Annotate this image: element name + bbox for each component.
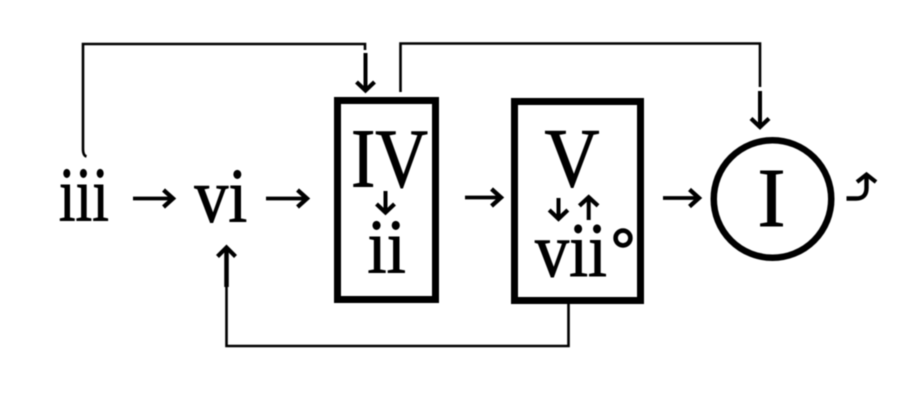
svg-text:I: I <box>758 152 786 245</box>
svg-text:vii: vii <box>535 207 607 293</box>
wire feedback iii to IV (top-left) <box>83 44 375 157</box>
svg-text:V: V <box>545 112 600 205</box>
arrow IV down to ii <box>377 191 395 213</box>
svg-text:vi: vi <box>194 153 247 239</box>
diminished degree circle on vii <box>616 231 631 246</box>
box IV/ii <box>338 101 436 300</box>
wire feedback V to vi (bottom) <box>218 248 569 347</box>
svg-text:IV: IV <box>351 113 428 206</box>
circle node I <box>714 140 832 258</box>
box V/vii <box>515 102 641 301</box>
arrow V down to vii <box>549 198 568 219</box>
arrow IV to V <box>465 189 501 206</box>
svg-text:iii: iii <box>59 152 109 238</box>
svg-text:ii: ii <box>367 204 406 290</box>
arrow iii to vi <box>133 190 173 207</box>
arrow V to I <box>663 190 699 207</box>
arrow vi to IV <box>266 190 307 207</box>
wire feedback IV to I (top-right) <box>401 44 770 128</box>
arrow vii up to V <box>579 197 598 220</box>
arrow I repeat (curved, right of circle) <box>847 175 877 199</box>
